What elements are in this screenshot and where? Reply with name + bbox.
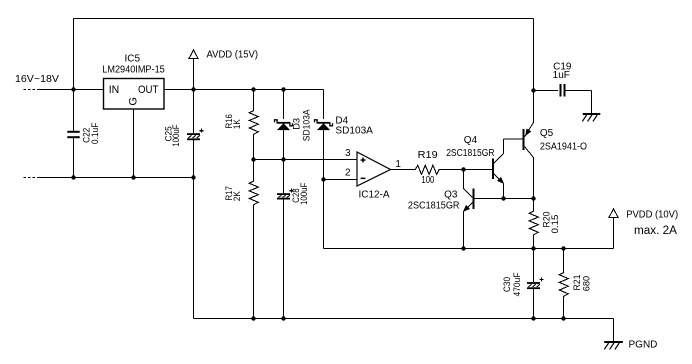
svg-text:100uF: 100uF xyxy=(171,124,182,146)
svg-text:100: 100 xyxy=(421,175,434,186)
svg-text:Q5: Q5 xyxy=(540,128,554,139)
svg-text:PGND: PGND xyxy=(629,340,658,351)
svg-text:2SC1815GR: 2SC1815GR xyxy=(408,201,460,212)
svg-text:OUT: OUT xyxy=(138,84,159,96)
svg-text:SD103A: SD103A xyxy=(302,109,313,141)
svg-text:PVDD (10V): PVDD (10V) xyxy=(626,209,678,220)
svg-text:SD103A: SD103A xyxy=(335,125,373,136)
svg-text:R19: R19 xyxy=(418,150,438,161)
svg-text:680: 680 xyxy=(582,276,593,291)
svg-text:2: 2 xyxy=(345,168,351,179)
svg-text:0.1uF: 0.1uF xyxy=(90,123,101,145)
svg-text:2SC1815GR: 2SC1815GR xyxy=(446,148,494,159)
svg-text:IC12-A: IC12-A xyxy=(358,190,389,201)
svg-text:3: 3 xyxy=(345,148,351,159)
svg-text:2SA1941-O: 2SA1941-O xyxy=(540,142,587,153)
svg-text:1: 1 xyxy=(395,159,401,170)
svg-text:100uF: 100uF xyxy=(299,183,310,205)
svg-text:G: G xyxy=(127,97,139,106)
svg-text:IC5: IC5 xyxy=(125,54,141,65)
svg-text:16V~18V: 16V~18V xyxy=(15,74,59,85)
svg-text:2K: 2K xyxy=(232,191,243,201)
svg-text:max. 2A: max. 2A xyxy=(634,225,677,237)
svg-text:LM2940IMP-15: LM2940IMP-15 xyxy=(102,65,165,76)
svg-text:0.15: 0.15 xyxy=(550,215,561,234)
svg-text:AVDD (15V): AVDD (15V) xyxy=(207,50,259,61)
svg-text:1K: 1K xyxy=(232,119,243,129)
svg-text:IN: IN xyxy=(109,84,120,96)
svg-text:1uF: 1uF xyxy=(553,70,570,81)
svg-text:470uF: 470uF xyxy=(512,272,523,296)
svg-text:Q3: Q3 xyxy=(444,190,458,201)
svg-text:Q4: Q4 xyxy=(464,135,478,146)
